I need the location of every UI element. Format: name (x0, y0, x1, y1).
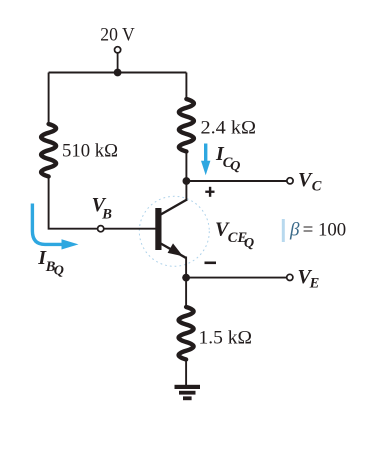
wire emitter vertical upper (185, 257, 187, 278)
svg-text:Q: Q (230, 159, 240, 174)
dashed highlight circle around transistor (139, 196, 209, 266)
wire emitter to V_E terminal (186, 277, 287, 279)
node emitter junction dot (182, 274, 190, 282)
resistor R3 1.5 kOhm (179, 307, 194, 360)
svg-text:E: E (309, 275, 320, 291)
V_C terminal circle (287, 178, 293, 184)
wire supply stub (117, 53, 119, 72)
transistor Q1 collector lead (159, 200, 187, 216)
svg-text:2.4 kΩ: 2.4 kΩ (201, 117, 257, 138)
minus sign (205, 262, 217, 265)
base terminal circle (98, 226, 104, 232)
wire left branch upper (48, 73, 50, 125)
supply terminal circle (115, 47, 121, 53)
svg-text:1.5 kΩ: 1.5 kΩ (199, 327, 253, 348)
beta highlight bar (light blue) (282, 219, 285, 242)
svg-text:=: = (303, 219, 314, 240)
svg-text:B: B (101, 206, 112, 222)
wire left branch lower (49, 177, 98, 229)
svg-text:V: V (298, 169, 313, 191)
svg-text:100: 100 (318, 219, 346, 240)
V_E terminal circle (287, 274, 293, 280)
wire emitter branch lower (185, 278, 187, 308)
svg-text:Q: Q (244, 236, 254, 251)
svg-text:510 kΩ: 510 kΩ (62, 140, 118, 161)
node collector junction dot (183, 177, 191, 185)
transistor Q1 emitter lead (159, 243, 186, 258)
resistor R1 510 kOhm (41, 124, 56, 177)
svg-text:Q: Q (54, 264, 64, 279)
resistor R2 2.4 kOhm (179, 99, 194, 152)
wire collector vertical (185, 152, 187, 202)
wire base (104, 228, 156, 230)
svg-text:C: C (312, 178, 322, 194)
svg-text:20 V: 20 V (100, 25, 135, 46)
transistor Q1 base bar (155, 208, 161, 250)
wire right branch upper (185, 73, 187, 100)
current arrow I_B (blue) (32, 204, 63, 245)
wire to ground (185, 360, 187, 386)
wire collector to V_C terminal (186, 180, 287, 182)
wire top rail (49, 72, 187, 74)
current arrow I_C (blue) (204, 144, 207, 164)
node junction dot top (114, 69, 122, 77)
plus sign (205, 187, 214, 197)
ground symbol (175, 385, 201, 389)
transistor Q1 emitter arrowhead (168, 243, 183, 256)
svg-text:β: β (289, 219, 300, 240)
